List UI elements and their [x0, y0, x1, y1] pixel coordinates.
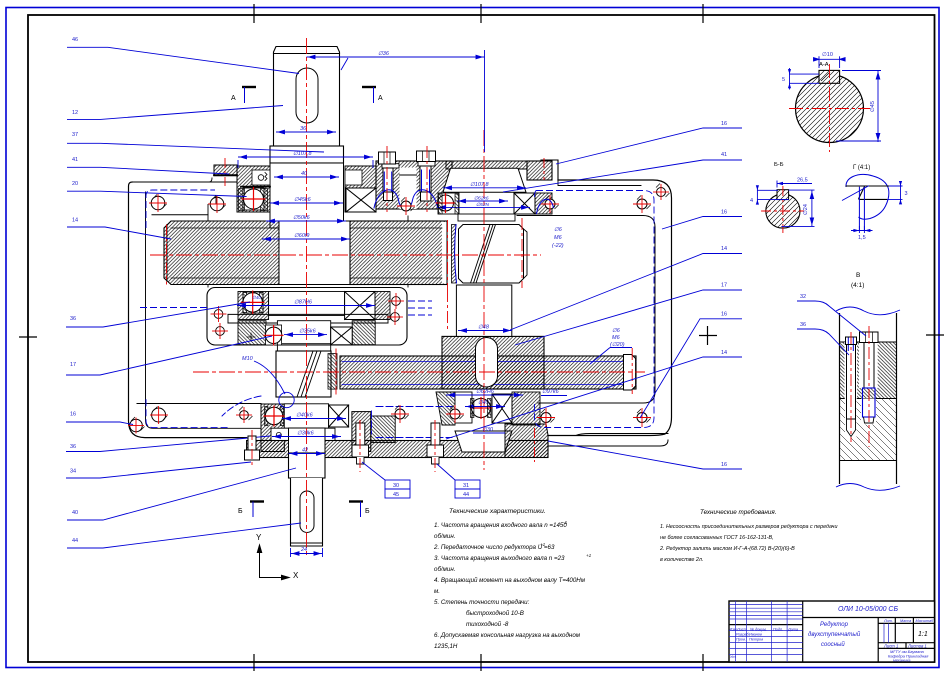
svg-text:45: 45	[393, 492, 399, 498]
ball bearing top-left	[243, 188, 264, 210]
svg-text:∅6: ∅6	[612, 328, 621, 334]
svg-text:механика: механика	[893, 658, 911, 663]
section mark A right	[362, 87, 383, 103]
cartridge mount holes	[214, 297, 400, 336]
keyway slot output shaft	[300, 491, 314, 533]
right bearing cap	[345, 166, 376, 212]
svg-text:∅48: ∅48	[478, 325, 490, 331]
casting scallop curve blue	[374, 190, 438, 209]
svg-text:ОЛИ 10-05/000 СБ: ОЛИ 10-05/000 СБ	[838, 606, 898, 613]
cartridge seat right hatched	[375, 292, 390, 320]
svg-text:36: 36	[70, 316, 76, 322]
gear band right end cap	[624, 355, 636, 391]
intermediate shaft upper body	[458, 214, 515, 221]
svg-text:об/мин.: об/мин.	[434, 533, 455, 540]
bearing housing small rects	[438, 193, 459, 214]
svg-text:+1: +1	[586, 553, 592, 558]
dim d107 top	[238, 155, 373, 159]
housing left wall inner	[146, 192, 262, 428]
shaft section circle A-A	[796, 75, 864, 143]
svg-text:∅40: ∅40	[252, 295, 261, 300]
svg-text:+1: +1	[540, 542, 546, 547]
blue dim labels	[242, 51, 564, 553]
svg-text:Б-Б: Б-Б	[774, 162, 784, 168]
svg-text:∅24: ∅24	[802, 204, 809, 215]
shaft shoulder	[270, 146, 344, 163]
svg-text:3. Частота вращения выходного: 3. Частота вращения выходного вала n =23	[434, 555, 565, 562]
svg-text:∅30: ∅30	[482, 427, 494, 433]
bottom cover right hatched foot	[505, 424, 548, 458]
svg-text:∅10: ∅10	[822, 51, 833, 58]
housing left wall outer	[129, 182, 247, 438]
svg-text:37: 37	[72, 132, 78, 138]
svg-text:Петров: Петров	[749, 638, 763, 642]
svg-text:∅6: ∅6	[554, 227, 563, 233]
seal below output bearing	[271, 428, 293, 440]
dim d40 bottom	[282, 417, 346, 421]
detail G stud lines	[858, 187, 860, 231]
svg-text:2. Редуктор залить маслом И-Г-: 2. Редуктор залить маслом И-Г-А-(68.72) …	[659, 546, 795, 552]
centerlines A-A	[789, 64, 870, 152]
lower caps hatched	[238, 321, 266, 345]
svg-text:24: 24	[300, 547, 307, 553]
housing inner step below cover	[558, 180, 641, 186]
intermediate bottom bearing	[455, 392, 472, 423]
svg-text:5: 5	[782, 77, 785, 83]
svg-text:20: 20	[72, 181, 78, 187]
dim d45k6	[270, 201, 343, 205]
svg-text:3: 3	[905, 191, 908, 197]
svg-text:Изм: Изм	[730, 628, 737, 632]
svg-text:∅107,8: ∅107,8	[470, 182, 489, 188]
svg-text:Б: Б	[238, 508, 243, 515]
detail G balloon blue	[846, 174, 889, 219]
gear band second stage	[340, 356, 636, 389]
dim second stage d62	[446, 393, 523, 397]
svg-text:4. Вращающий момент на выходно: 4. Вращающий момент на выходном валу Т=4…	[434, 577, 586, 584]
svg-text:Подп.: Подп.	[773, 628, 783, 632]
dim intermediate bearing	[443, 186, 526, 190]
svg-text:31: 31	[463, 483, 469, 489]
center distance dim top	[307, 55, 485, 59]
centerline bearing joint vertical	[447, 220, 449, 290]
housing inner chamber top left	[152, 214, 208, 216]
svg-text:17: 17	[721, 283, 727, 289]
svg-text:Лист: Лист	[736, 628, 747, 632]
centerline gear end right	[631, 348, 633, 394]
svg-text:м.: м.	[434, 588, 440, 595]
svg-text:Технические характеристики.: Технические характеристики.	[449, 508, 546, 515]
shaft section circle B-B	[766, 194, 800, 228]
centerlines B-B	[761, 186, 804, 233]
section mark A left	[231, 87, 256, 103]
svg-text:40: 40	[72, 510, 78, 516]
svg-text:Дата: Дата	[787, 628, 798, 632]
svg-text:Иванов: Иванов	[749, 633, 762, 637]
stud bolt bottom B2	[427, 423, 444, 464]
svg-text:40: 40	[301, 171, 308, 177]
stud bolt M2	[417, 151, 436, 201]
svg-text:тихоходной -8: тихоходной -8	[466, 621, 509, 628]
svg-text:Масса: Масса	[900, 619, 911, 623]
svg-text:∅97k6: ∅97k6	[542, 389, 560, 395]
dim 40	[274, 175, 339, 179]
title block main partitions black	[729, 601, 935, 662]
housing inner chamber top right	[517, 216, 655, 404]
svg-text:∅36: ∅36	[378, 51, 390, 57]
side piece right of cap	[371, 416, 395, 443]
output bearing cap right	[352, 412, 371, 452]
centerline mesh pitch second stage	[335, 349, 337, 394]
svg-text:44: 44	[463, 492, 469, 498]
centerline input/output axis vertical	[306, 38, 308, 556]
output bearing cap left	[261, 404, 284, 452]
centerline first stage horizontal	[150, 254, 541, 256]
svg-text:Разраб.: Разраб.	[736, 633, 750, 637]
dims G	[851, 181, 903, 233]
dim d60	[262, 237, 350, 241]
svg-text:не более согласованных ГОСТ 16: не более согласованных ГОСТ 16-162-131-В…	[660, 535, 774, 541]
break lines V blue	[836, 307, 900, 315]
section mark B right	[349, 502, 370, 518]
stud bolt bottom B0	[245, 430, 260, 466]
housing top right wall	[548, 180, 672, 436]
keyway B-B	[777, 190, 789, 200]
keyway slot input shaft	[296, 68, 318, 123]
hidden pocket left top	[146, 190, 215, 228]
svg-text:Технические требования.: Технические требования.	[700, 508, 777, 516]
spec label M6 at band end	[610, 328, 625, 348]
svg-text:А-А: А-А	[819, 62, 829, 68]
svg-text:∅35k6: ∅35k6	[299, 329, 317, 335]
output shaft upper section	[289, 453, 326, 478]
blue hole circle	[279, 392, 294, 407]
svg-text:∅62H6: ∅62H6	[476, 389, 495, 395]
shaft face band right	[524, 229, 528, 279]
centerline second stage horizontal	[193, 371, 645, 373]
bottom cover thin plate right	[548, 434, 668, 447]
cover recess trapezoid	[443, 168, 526, 192]
svg-text:двухступенчатый: двухступенчатый	[808, 631, 861, 638]
top cover left strip	[214, 165, 237, 176]
left bearing cap	[237, 166, 270, 212]
dim d50k6	[266, 219, 346, 223]
recess gap between bolt bosses	[400, 168, 417, 210]
housing top-left edge	[132, 181, 237, 183]
gear wheel right half	[350, 221, 447, 285]
svg-text:∅52N: ∅52N	[476, 202, 490, 208]
svg-text:Y: Y	[256, 533, 262, 542]
svg-text:1235,1Н: 1235,1Н	[434, 643, 458, 650]
svg-text:34: 34	[70, 469, 76, 475]
bearing race strips top bearing	[439, 194, 491, 418]
bottom flange line	[137, 403, 261, 405]
svg-text:Листов 1: Листов 1	[907, 644, 927, 649]
roller bearing X bottom output	[329, 405, 349, 427]
output pinion helical left	[276, 351, 331, 397]
title block outer	[729, 601, 935, 662]
svg-text:26,5: 26,5	[797, 178, 808, 184]
shaft body through top bearing	[270, 163, 344, 228]
detail G joint edges	[846, 186, 890, 199]
svg-text:30: 30	[393, 483, 399, 489]
svg-text:№ докум.: № докум.	[750, 628, 767, 632]
svg-text:∅107,8: ∅107,8	[293, 151, 312, 157]
svg-text:41: 41	[72, 157, 78, 163]
ball bearing bottom output	[265, 407, 268, 426]
ball bearing intermediate top	[438, 195, 454, 211]
leaders V	[797, 301, 866, 355]
dim 36 journal	[276, 130, 336, 134]
svg-text:А: А	[231, 95, 236, 102]
svg-text:Пров.: Пров.	[736, 638, 746, 642]
hatched flange top V	[840, 342, 897, 399]
svg-text:41: 41	[721, 152, 727, 158]
svg-text:16: 16	[70, 412, 76, 418]
flange holes with red crosses row 1	[149, 184, 669, 215]
svg-text:6. Допускаемая консольная нагр: 6. Допускаемая консольная нагрузка на вы…	[434, 632, 581, 639]
svg-text:соосный: соосный	[821, 641, 845, 648]
ball bearing mid lower	[266, 325, 282, 345]
svg-text:1:1: 1:1	[918, 631, 928, 638]
dim d30 bottom	[272, 435, 341, 439]
gear hub second stage	[442, 336, 544, 389]
svg-text:-1: -1	[563, 520, 568, 525]
title block fine grid blue	[729, 601, 889, 662]
bearing ball crosses	[241, 187, 492, 427]
dims B-B	[756, 181, 815, 227]
cartridge seat left hatched	[238, 292, 269, 320]
centerline gear pitch vertical right	[521, 218, 523, 288]
stud bolt bottom B1	[352, 423, 369, 464]
bottom cover strip hatched	[247, 441, 548, 458]
roller bearing X top-right	[346, 188, 376, 212]
hidden pocket dashed bottom center	[222, 396, 452, 438]
title block texts	[730, 606, 935, 663]
svg-text:Ут.: Ут.	[730, 655, 737, 659]
stud bolt M1	[379, 152, 400, 201]
svg-text:M6: M6	[612, 335, 621, 341]
output shaft lower section	[291, 478, 323, 546]
svg-text:∅30k6: ∅30k6	[297, 431, 315, 437]
svg-text:∅60f9: ∅60f9	[294, 233, 310, 239]
stud bolt V right with head	[860, 326, 879, 447]
svg-text:5. Степень точности передачи:: 5. Степень точности передачи:	[434, 599, 530, 606]
cartridge outer block	[207, 288, 407, 346]
svg-text:14: 14	[721, 350, 727, 356]
svg-text:∅40k6: ∅40k6	[296, 413, 314, 419]
bolt centerlines bottom	[359, 420, 361, 472]
centerline intermediate axis vertical	[483, 130, 485, 470]
svg-text:∅45k6: ∅45k6	[294, 197, 312, 203]
svg-text:1,5: 1,5	[858, 235, 866, 241]
svg-text:14: 14	[721, 246, 727, 252]
detail G leader	[842, 186, 869, 201]
svg-text:36: 36	[70, 444, 76, 450]
oil pocket hidden outline right	[535, 191, 655, 428]
svg-text:(4:1): (4:1)	[851, 282, 864, 289]
svg-text:16: 16	[721, 462, 727, 468]
ball bearing mid upper	[243, 292, 263, 313]
svg-text:M6: M6	[554, 235, 563, 241]
svg-text:В: В	[856, 272, 860, 279]
svg-text:в количестве 2л.: в количестве 2л.	[660, 557, 703, 563]
roller bearing X mid lower	[331, 327, 353, 345]
keyway A-A	[819, 70, 840, 83]
dim d47 mid	[237, 304, 375, 308]
svg-text:Г (4:1): Г (4:1)	[853, 165, 870, 171]
mesh contact sliver	[452, 225, 457, 284]
intermediate shaft lower body	[456, 285, 511, 336]
svg-text:1. Частота вращения входного в: 1. Частота вращения входного вала n =145…	[434, 522, 567, 529]
svg-text:44: 44	[72, 538, 78, 544]
svg-text:∅50k6: ∅50k6	[293, 215, 311, 221]
sleeve upper	[269, 292, 345, 316]
hidden bolt centerline at step	[543, 158, 545, 180]
casting scallop right of step	[537, 199, 554, 214]
svg-text:17: 17	[70, 362, 76, 368]
svg-text:M10: M10	[242, 356, 254, 362]
shaft band through cartridge	[277, 321, 330, 344]
thread ticks in holes	[131, 184, 670, 431]
svg-text:быстроходной 10-В: быстроходной 10-В	[466, 610, 524, 617]
svg-text:32: 32	[800, 294, 806, 300]
input shaft section between gears	[279, 221, 350, 285]
svg-text:16: 16	[721, 311, 727, 317]
svg-text:А: А	[378, 95, 383, 102]
input shaft top	[274, 47, 340, 147]
svg-text:36: 36	[800, 322, 806, 328]
svg-text:X: X	[293, 571, 299, 580]
dims A-A	[788, 56, 881, 142]
svg-text:∅87H6: ∅87H6	[294, 300, 313, 306]
mesh zone strip	[328, 354, 337, 390]
svg-text:4: 4	[750, 198, 753, 204]
svg-text:Масштаб: Масштаб	[916, 619, 935, 623]
svg-text:(-22): (-22)	[552, 243, 564, 249]
dim d35 mid	[284, 333, 327, 337]
flange holes with red crosses row 2	[128, 405, 651, 434]
chamber walls input shaft	[208, 196, 408, 288]
shaft neck below cartridge	[276, 344, 278, 352]
oil level marks	[408, 300, 432, 302]
svg-text:1. Несоосность присоединительн: 1. Несоосность присоединительных размеро…	[660, 524, 837, 530]
svg-text:36: 36	[300, 126, 307, 132]
svg-text:16: 16	[721, 121, 727, 127]
bolt centerlines top	[386, 146, 388, 212]
svg-text:14: 14	[72, 218, 78, 224]
keyway slot intermediate lower	[476, 338, 498, 388]
section mark B left	[238, 502, 264, 518]
top cover plate / boss	[376, 161, 452, 209]
seal circle	[258, 175, 264, 181]
svg-text:Редуктор: Редуктор	[820, 622, 849, 628]
svg-text:46: 46	[72, 37, 78, 43]
svg-text:2. Передаточное число редуктор: 2. Передаточное число редуктора U =63	[433, 544, 555, 551]
intermediate shaft pinion section	[459, 225, 524, 284]
roller bearing X mid upper	[345, 292, 375, 320]
small cross mark	[247, 333, 255, 341]
svg-text:∅62k6: ∅62k6	[474, 196, 489, 202]
output shaft through cover	[289, 428, 326, 458]
svg-text:12: 12	[72, 110, 78, 116]
svg-text:42: 42	[302, 448, 308, 454]
bolt clearance holes V	[845, 342, 858, 399]
svg-text:Лист 1: Лист 1	[883, 644, 898, 649]
intermediate bottom bearing flank right	[512, 392, 540, 425]
svg-text:Б: Б	[365, 508, 370, 515]
housing top step right	[541, 160, 558, 180]
roller bearing X intermediate top	[514, 193, 535, 214]
column outline V	[840, 313, 897, 484]
svg-text:∅45: ∅45	[869, 101, 876, 112]
intermediate bottom bearing flank left	[436, 392, 455, 425]
stud bolt V left	[846, 332, 857, 442]
gear wheel left half	[164, 221, 279, 285]
hidden pocket left bottom	[146, 399, 228, 427]
svg-text:Лит.: Лит.	[883, 619, 893, 623]
dim 24 bottom shaft	[291, 552, 323, 556]
shaft band bottom	[284, 404, 328, 428]
svg-text:об/мин.: об/мин.	[434, 566, 455, 573]
bottom cover recess trapezoid under intermediate	[455, 431, 512, 452]
svg-text:16: 16	[721, 210, 727, 216]
cartridge flange lines	[228, 313, 388, 315]
